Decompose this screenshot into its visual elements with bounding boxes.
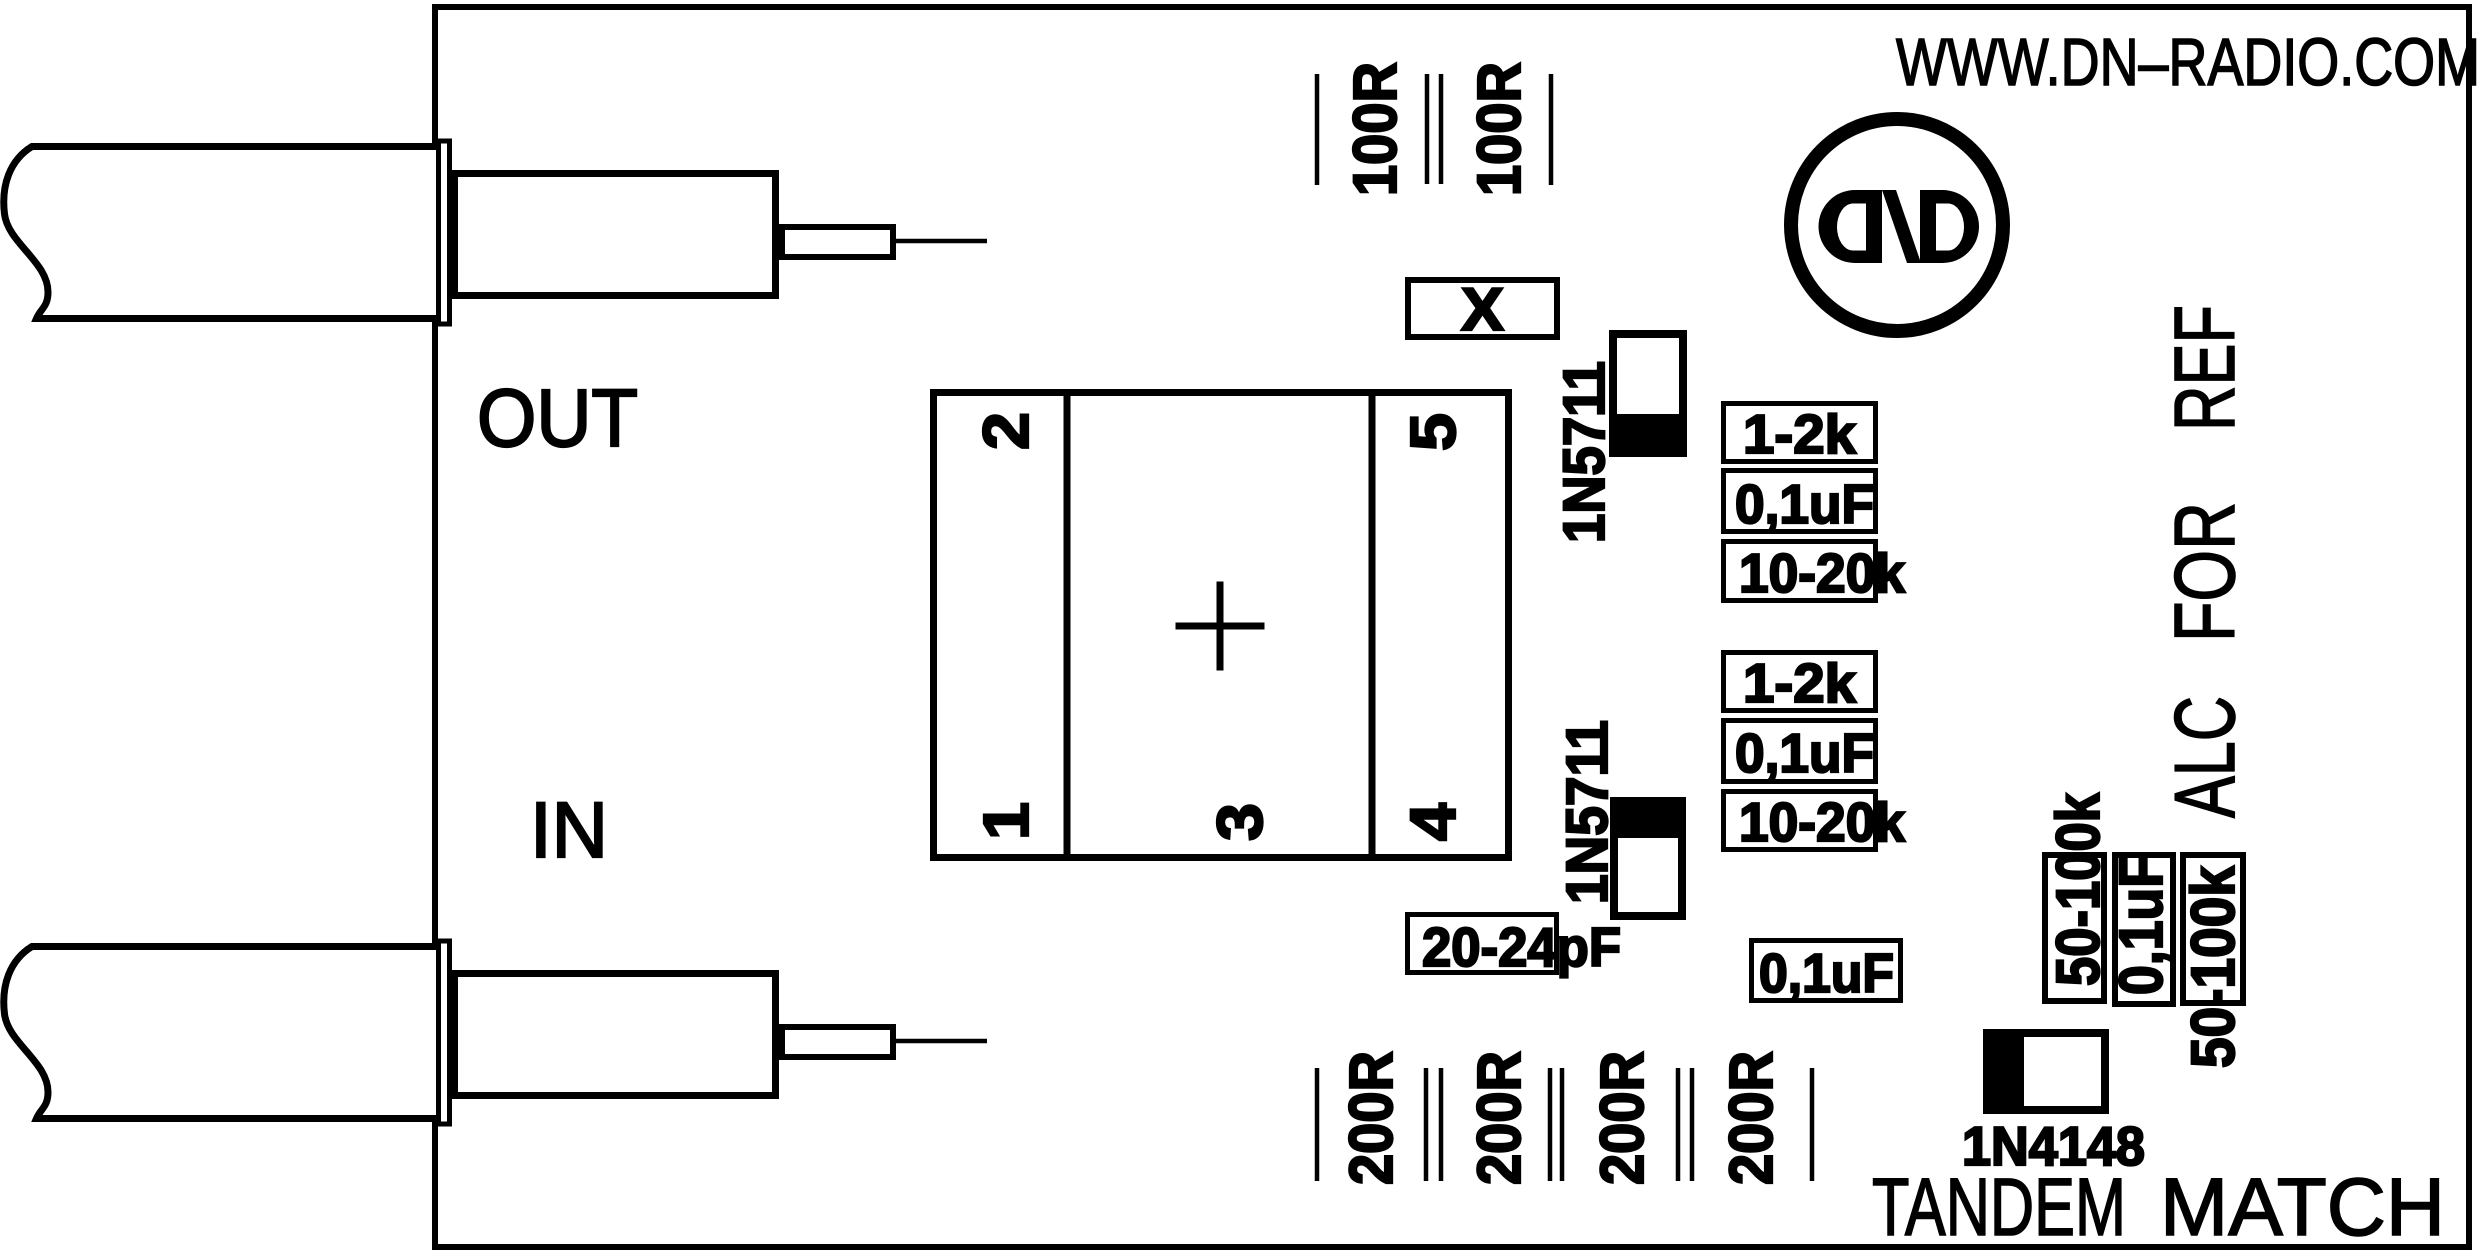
- svg-text:WWW.DN–RADIO.COM: WWW.DN–RADIO.COM: [1896, 25, 2479, 100]
- svg-text:0,1uF: 0,1uF: [1735, 722, 1874, 784]
- coax cable OUT (shield with break symbol): [4, 147, 446, 319]
- transformer polarity cross: [1176, 582, 1265, 671]
- svg-text:MATCH: MATCH: [2160, 1162, 2445, 1252]
- svg-text:X: X: [1461, 276, 1504, 343]
- diode D1 1N5711 body: [1609, 334, 1687, 457]
- svg-text:1-2k: 1-2k: [1743, 652, 1856, 714]
- resistor 200R #1 label: [1337, 1051, 1405, 1185]
- label OUT: [477, 373, 638, 464]
- transformer pin 2: [970, 412, 1042, 450]
- resistor 50-100k (right) box: [2183, 855, 2243, 1003]
- capacitor 0,1uF (middle) label: [1759, 942, 1894, 1004]
- label ALC FOR REF : ALC: [2158, 696, 2253, 818]
- resistor 200R #2 label: [1465, 1051, 1533, 1185]
- label IN: [530, 785, 608, 874]
- transformer T1 body: [934, 393, 1509, 858]
- svg-text:200R: 200R: [1337, 1051, 1405, 1185]
- coax IN center pin: [782, 1027, 893, 1057]
- diode D3 1N4148 body: [1983, 1029, 2105, 1114]
- label ALC FOR REF : REF: [2158, 305, 2253, 431]
- svg-text:200R: 200R: [1717, 1051, 1785, 1185]
- resistor 200R #3/#4 leads: [1678, 1068, 1692, 1181]
- resistor 1-2k (upper) box: [1724, 404, 1876, 462]
- svg-text:3: 3: [1204, 803, 1276, 841]
- coax OUT pin wire: [896, 239, 987, 244]
- transformer pin 3: [1204, 803, 1276, 841]
- resistor 10-20k (lower) box: [1724, 792, 1876, 850]
- capacitor 20-24pF box: [1408, 915, 1557, 973]
- svg-text:IN: IN: [530, 785, 608, 874]
- svg-text:5: 5: [1397, 413, 1469, 451]
- svg-text:1: 1: [970, 802, 1042, 840]
- capacitor 0,1uF (upper) box: [1724, 471, 1876, 532]
- resistor 1-2k (lower) box: [1724, 653, 1876, 711]
- coax cable IN (shield with break symbol): [4, 947, 446, 1119]
- DN logo monogram: [1819, 190, 1980, 263]
- svg-text:FOR: FOR: [2158, 502, 2253, 642]
- coax OUT connector body: [455, 174, 776, 296]
- diode D2 label 1N5711: [1555, 720, 1620, 904]
- transformer pin 4: [1397, 803, 1469, 841]
- coax OUT center pin: [782, 227, 893, 257]
- coax IN pin wire: [896, 1039, 987, 1044]
- svg-text:100R: 100R: [1341, 62, 1409, 196]
- resistor 200R #2/#3 leads: [1550, 1068, 1562, 1181]
- svg-text:10-20k: 10-20k: [1739, 542, 1905, 604]
- transformer pin 1: [970, 802, 1042, 840]
- title TANDEM MATCH: [1872, 1162, 2445, 1252]
- coax IN collar: [439, 941, 450, 1124]
- svg-text:2: 2: [970, 412, 1042, 450]
- resistor 200R #3 label: [1588, 1051, 1656, 1185]
- resistor 1-2k (upper) label: [1743, 403, 1856, 465]
- website WWW.DN-RADIO.COM: [1896, 25, 2479, 100]
- capacitor 0,1uF (right cluster) box: [2115, 855, 2173, 1004]
- resistor 10-20k (lower) label: [1739, 791, 1905, 853]
- resistor 50-100k (left) box: [2045, 855, 2104, 1001]
- svg-text:ALC: ALC: [2158, 696, 2253, 818]
- svg-text:10-20k: 10-20k: [1739, 791, 1905, 853]
- resistor 10-20k (upper) label: [1739, 542, 1905, 604]
- resistor 100R left label: [1341, 62, 1409, 196]
- svg-text:200R: 200R: [1588, 1051, 1656, 1185]
- svg-text:0,1uF: 0,1uF: [2107, 855, 2175, 995]
- capacitor 20-24pF label: [1422, 916, 1621, 978]
- svg-text:100R: 100R: [1465, 62, 1533, 196]
- resistor 50-100k (right) label: [2179, 866, 2247, 1068]
- capacitor 0,1uF (upper) label: [1735, 473, 1874, 535]
- svg-text:0,1uF: 0,1uF: [1759, 942, 1894, 1004]
- svg-text:1N5711: 1N5711: [1552, 361, 1617, 543]
- resistor 200R #4 right lead: [1810, 1068, 1815, 1181]
- resistor 100R shared leads: [1427, 74, 1441, 184]
- DN logo ring: [1791, 119, 2003, 331]
- svg-text:1N5711: 1N5711: [1555, 720, 1620, 904]
- resistor 200R #1 left lead: [1315, 1068, 1320, 1181]
- label ALC FOR REF : FOR: [2158, 502, 2253, 642]
- coax OUT collar: [439, 141, 450, 324]
- resistor 200R #4 label: [1717, 1051, 1785, 1185]
- resistor 100R right lead: [1549, 74, 1554, 185]
- resistor 50-100k (left) label: [2044, 793, 2112, 986]
- diode D3 label 1N4148: [1962, 1116, 2145, 1177]
- jumper X box: [1408, 280, 1557, 337]
- svg-text:200R: 200R: [1465, 1051, 1533, 1185]
- jumper X label: [1461, 276, 1504, 343]
- svg-text:OUT: OUT: [477, 373, 638, 464]
- transformer pin 5: [1397, 413, 1469, 451]
- capacitor 0,1uF (lower) box: [1724, 721, 1876, 782]
- svg-text:TANDEM: TANDEM: [1872, 1162, 2126, 1252]
- capacitor 0,1uF (lower) label: [1735, 722, 1874, 784]
- capacitor 0,1uF (right cluster) label: [2107, 855, 2175, 995]
- svg-text:0,1uF: 0,1uF: [1735, 473, 1874, 535]
- diode D2 1N5711 body: [1610, 797, 1686, 916]
- transformer winding separator left: [1064, 389, 1071, 861]
- capacitor 0,1uF (middle) box: [1752, 941, 1901, 1001]
- svg-text:50-100k: 50-100k: [2179, 866, 2247, 1068]
- svg-text:20-24pF: 20-24pF: [1422, 916, 1621, 978]
- diode D1 label 1N5711: [1552, 361, 1617, 543]
- svg-text:50-100k: 50-100k: [2044, 793, 2112, 986]
- resistor 10-20k (upper) box: [1724, 542, 1876, 601]
- coax IN connector body: [455, 974, 776, 1096]
- resistor 1-2k (lower) label: [1743, 652, 1856, 714]
- resistor 100R left lead: [1315, 74, 1320, 185]
- transformer winding separator right: [1369, 389, 1376, 861]
- resistor 200R #1/#2 leads: [1426, 1068, 1441, 1181]
- svg-text:1-2k: 1-2k: [1743, 403, 1856, 465]
- svg-text:REF: REF: [2158, 305, 2253, 431]
- resistor 100R right label: [1465, 62, 1533, 196]
- svg-text:4: 4: [1397, 803, 1469, 841]
